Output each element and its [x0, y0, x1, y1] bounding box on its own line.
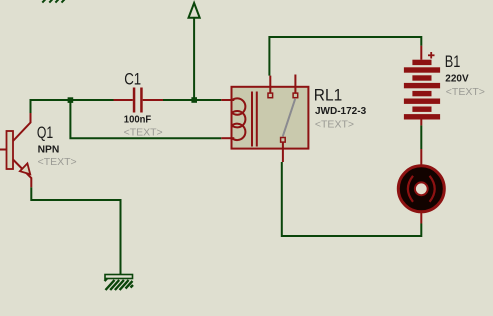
svg-text:100nF: 100nF [124, 114, 151, 125]
core line 2 [256, 92, 258, 147]
left plate [133, 88, 136, 113]
svg-text:<TEXT>: <TEXT> [124, 127, 163, 139]
transistor Q1 [0, 113, 31, 187]
svg-text:<TEXT>: <TEXT> [38, 156, 77, 168]
junction node at power arrow [191, 97, 197, 103]
wire bypass junction down to relay coil bottom [70, 100, 221, 138]
core line 1 [251, 92, 253, 147]
svg-text:NPN: NPN [38, 145, 60, 156]
left lead [114, 99, 133, 101]
pin lead top-left [269, 76, 271, 94]
relay RL1 [221, 75, 308, 163]
battery B1 [404, 46, 440, 126]
cell bars [404, 60, 440, 120]
coil top pin [221, 99, 234, 101]
emitter lead [13, 160, 31, 188]
capacitor C1 [114, 88, 164, 113]
bottom pin [420, 212, 422, 224]
pin lead bottom [282, 142, 284, 162]
coil [232, 98, 245, 140]
power terminal arrow [189, 3, 200, 100]
wire relay switch pin to battery top [269, 37, 421, 76]
right plate [140, 88, 143, 113]
body [398, 166, 444, 212]
svg-text:C1: C1 [124, 70, 141, 89]
base lead [0, 149, 7, 151]
emitter arrow [20, 163, 30, 174]
right brush arc [430, 176, 435, 202]
pin square pole [281, 138, 286, 143]
left brush arc [408, 176, 413, 202]
svg-text:RL1: RL1 [314, 86, 342, 105]
svg-text:Q1: Q1 [37, 124, 53, 142]
ground symbol [105, 275, 134, 291]
body [232, 87, 309, 149]
pin lead top-right stub [294, 75, 296, 94]
shaft circle [415, 182, 428, 195]
top pin [420, 46, 422, 60]
plus sign [428, 52, 435, 59]
right lead [143, 99, 163, 101]
base bar [7, 131, 14, 169]
pin square common [268, 93, 273, 98]
svg-text:JWD-172-3: JWD-172-3 [315, 106, 367, 117]
wire motor bottom to relay bottom pin [282, 162, 422, 236]
wire battery bottom to motor top [420, 125, 422, 149]
wire C1 right to relay coil top [163, 99, 221, 101]
svg-text:<TEXT>: <TEXT> [446, 86, 485, 98]
svg-text:B1: B1 [445, 52, 461, 71]
svg-text:220V: 220V [445, 74, 469, 85]
collector lead [13, 113, 31, 141]
coil bottom pin [221, 137, 234, 139]
junction node at collector rail [68, 97, 74, 103]
top pin [420, 149, 422, 166]
bottom pin [420, 120, 422, 126]
pin square NC [293, 93, 298, 98]
ground (off-canvas, hatch tips at top edge) [42, 0, 64, 3]
motor [398, 149, 444, 224]
switch arm [283, 99, 296, 137]
wire emitter to ground [31, 187, 120, 275]
wire collector to C1 (top rail left) [31, 100, 114, 113]
svg-text:<TEXT>: <TEXT> [315, 118, 354, 130]
